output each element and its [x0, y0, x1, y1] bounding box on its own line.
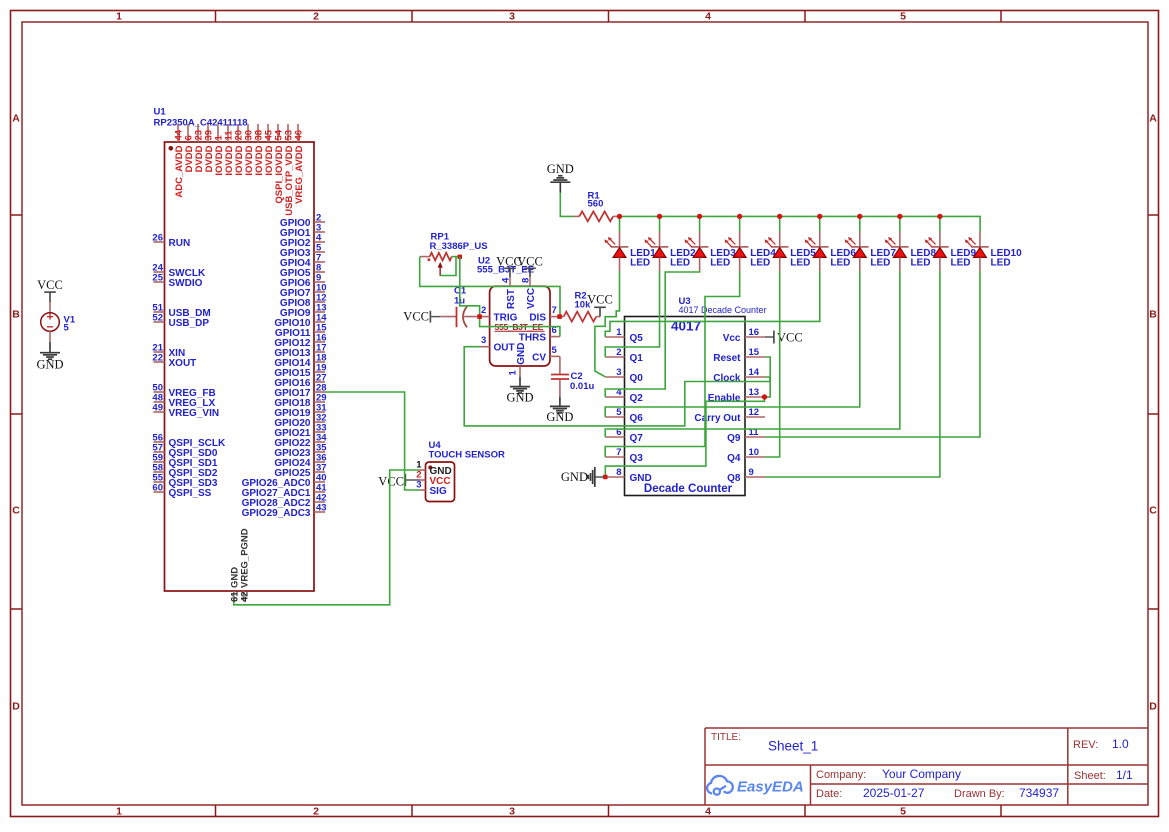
junction (rail LED1) — [617, 214, 622, 219]
svg-text:LED: LED — [830, 257, 850, 268]
svg-text:SIG: SIG — [430, 486, 447, 497]
U1 pin 51 USB_DM — [154, 311, 165, 313]
svg-text:LED: LED — [991, 257, 1011, 268]
junction (rail LED2) — [657, 214, 662, 219]
U3 pin 4 Q2 — [605, 396, 624, 398]
U1 pin 31 GPIO19 — [314, 411, 325, 413]
svg-text:D: D — [12, 701, 20, 713]
wire (LED cathode rail) — [620, 216, 981, 231]
LED LED9 — [939, 216, 941, 231]
U1 pin 18 GPIO14 — [314, 361, 325, 363]
U1 pin 54 QSPI_IOVDD — [277, 124, 279, 142]
svg-text:5: 5 — [900, 806, 906, 818]
svg-text:LED: LED — [870, 257, 890, 268]
svg-text:42: 42 — [239, 591, 250, 602]
svg-text:Q8: Q8 — [727, 473, 741, 484]
svg-text:RP2350A_C42411118: RP2350A_C42411118 — [154, 118, 248, 129]
U1 pin 3 GPIO1 — [314, 231, 325, 233]
U1 pin 28 GPIO17 — [314, 391, 325, 393]
svg-text:43: 43 — [316, 503, 327, 514]
svg-text:TOUCH SENSOR: TOUCH SENSOR — [429, 450, 506, 461]
U1 pin 39 DVDD — [207, 124, 209, 142]
svg-text:VCC: VCC — [777, 331, 803, 345]
svg-text:49: 49 — [152, 403, 163, 414]
U3 pin 14 Clock — [745, 376, 765, 378]
svg-text:2025-01-27: 2025-01-27 — [863, 786, 925, 800]
svg-text:4: 4 — [705, 806, 711, 818]
power flag VCC (U2 VCC) — [529, 268, 531, 277]
U1 pin 41 GPIO27_ADC1 — [314, 491, 325, 493]
U3 pin 15 Reset — [745, 356, 765, 358]
ground GND (V1) — [49, 342, 51, 353]
svg-text:4: 4 — [705, 11, 711, 23]
U1 pin 44 ADC_AVDD — [177, 124, 179, 142]
svg-text:8: 8 — [616, 467, 621, 478]
U1 pin 37 GPIO25 — [314, 471, 325, 473]
svg-text:Clock: Clock — [713, 373, 741, 384]
svg-text:22: 22 — [152, 353, 163, 364]
U2 pin 3 OUT — [480, 346, 489, 348]
svg-text:THRS: THRS — [519, 333, 547, 344]
svg-text:8: 8 — [521, 278, 532, 283]
svg-text:RUN: RUN — [169, 238, 191, 249]
svg-text:60: 60 — [152, 483, 163, 494]
voltage source V1 — [49, 302, 51, 313]
svg-text:U1: U1 — [154, 107, 167, 118]
svg-text:C: C — [1149, 505, 1157, 517]
svg-text:1: 1 — [116, 806, 122, 818]
svg-text:15: 15 — [749, 347, 760, 358]
U2 pin 7 DIS — [550, 316, 560, 318]
ground GND (C2) — [559, 397, 561, 407]
LED LED2 — [659, 216, 661, 231]
svg-text:EasyEDA: EasyEDA — [737, 779, 804, 796]
svg-text:GND: GND — [561, 470, 588, 484]
U1 pin 2 GPIO0 — [314, 221, 325, 223]
ground GND (U3) — [595, 476, 606, 478]
U1 pin 11 IOVDD — [227, 124, 229, 142]
svg-text:GND: GND — [630, 473, 652, 484]
U1 pin 12 GPIO8 — [314, 301, 325, 303]
svg-text:B: B — [12, 309, 20, 321]
svg-text:Q2: Q2 — [630, 393, 644, 404]
svg-text:1: 1 — [116, 11, 122, 23]
junction (TRIG node) — [477, 314, 482, 319]
svg-text:26: 26 — [152, 233, 163, 244]
U3 pin 8 GND — [605, 476, 624, 478]
U1 pin 56 QSPI_SCLK — [154, 441, 165, 443]
svg-text:14: 14 — [749, 367, 760, 378]
U1 pin 34 GPIO22 — [314, 441, 325, 443]
svg-text:LED: LED — [910, 257, 930, 268]
U1 pin 61 GND — [233, 591, 235, 602]
svg-text:16: 16 — [749, 327, 760, 338]
svg-text:3: 3 — [509, 806, 515, 818]
svg-text:GND: GND — [546, 410, 573, 424]
svg-text:Sheet_1: Sheet_1 — [768, 739, 818, 754]
junction (rail LED8) — [897, 214, 902, 219]
svg-text:Q3: Q3 — [630, 453, 644, 464]
U3 pin 13 Enable — [745, 396, 765, 398]
svg-text:LED: LED — [630, 257, 650, 268]
svg-text:Q9: Q9 — [727, 433, 741, 444]
svg-text:VREG_PGND: VREG_PGND — [239, 528, 250, 588]
svg-text:GPIO29_ADC3: GPIO29_ADC3 — [242, 508, 311, 519]
wire (LED7 to Q6) — [605, 271, 860, 417]
svg-text:REV:: REV: — [1073, 739, 1098, 751]
wire (OUT to Clock) — [464, 347, 770, 426]
svg-text:3: 3 — [481, 335, 486, 346]
LED LED10 — [979, 232, 981, 248]
U4 pin 1 GND — [420, 469, 426, 471]
junction (DIS node) — [557, 314, 562, 319]
wire (RP1 to TRIG) — [460, 257, 480, 317]
svg-text:GND: GND — [506, 390, 533, 404]
svg-text:46: 46 — [294, 130, 305, 141]
junction (rail LED6) — [817, 214, 822, 219]
svg-text:VCC: VCC — [526, 288, 537, 309]
svg-text:A: A — [12, 113, 20, 125]
svg-text:7: 7 — [616, 447, 621, 458]
svg-text:Vcc: Vcc — [723, 333, 741, 344]
svg-text:5: 5 — [616, 407, 622, 418]
junction (rail LED5) — [777, 214, 782, 219]
wire (GND to R1) — [560, 193, 573, 217]
svg-text:RST: RST — [506, 289, 517, 309]
U3 pin 9 Q8 — [745, 476, 765, 478]
U1 pin 35 GPIO23 — [314, 451, 325, 453]
wire (LED10 to Q9) — [765, 271, 980, 437]
U1 pin 29 GPIO18 — [314, 401, 325, 403]
svg-text:2: 2 — [313, 11, 319, 23]
svg-text:2: 2 — [313, 806, 319, 818]
svg-text:GND: GND — [36, 358, 63, 372]
U1 pin 40 GPIO26_ADC0 — [314, 481, 325, 483]
svg-text:C: C — [12, 505, 20, 517]
U1 pin 42 GPIO28_ADC2 — [314, 501, 325, 503]
svg-text:VCC: VCC — [403, 310, 429, 324]
U1 pin 6 DVDD — [187, 124, 189, 142]
U3 pin 10 Q4 — [745, 456, 765, 458]
LED LED3 — [699, 216, 701, 231]
wire (LED5 to Q4) — [765, 271, 780, 457]
U1 pin 36 GPIO24 — [314, 461, 325, 463]
svg-text:A: A — [1149, 113, 1157, 125]
svg-text:VCC: VCC — [378, 475, 404, 489]
svg-text:560: 560 — [588, 198, 604, 209]
svg-text:5: 5 — [552, 345, 558, 356]
U1 pin 26 RUN — [154, 241, 165, 243]
svg-text:Q7: Q7 — [630, 433, 644, 444]
U3 pin 3 Q0 — [605, 376, 624, 378]
U3 pin 7 Q3 — [605, 456, 624, 458]
U1 pin 17 GPIO13 — [314, 351, 325, 353]
U1 pin 50 VREG_FB — [154, 391, 165, 393]
svg-text:VREG_VIN: VREG_VIN — [169, 408, 220, 419]
ground GND (U2) — [519, 377, 521, 387]
svg-text:2: 2 — [616, 347, 621, 358]
wire (LED2 to Q1) — [605, 271, 659, 357]
svg-text:1.0: 1.0 — [1112, 737, 1129, 751]
U3 pin 2 Q1 — [605, 356, 624, 358]
svg-text:VCC: VCC — [517, 254, 543, 268]
svg-text:LED: LED — [790, 257, 810, 268]
U1 pin 21 XIN — [154, 351, 165, 353]
svg-text:4: 4 — [501, 277, 512, 283]
LED LED4 — [739, 216, 741, 231]
svg-text:Reset: Reset — [713, 353, 741, 364]
svg-text:CV: CV — [532, 352, 546, 363]
svg-text:9: 9 — [749, 467, 754, 478]
power flag VCC (R2) — [599, 307, 601, 316]
svg-text:VCC: VCC — [37, 278, 63, 292]
svg-text:3: 3 — [616, 367, 621, 378]
U1 pin 48 VREG_LX — [154, 401, 165, 403]
U1 pin 42 VREG_PGND — [243, 591, 245, 602]
wire (TRIG to THRS) — [480, 317, 560, 337]
svg-text:B: B — [1149, 309, 1157, 321]
U1 pin 25 SWDIO — [154, 281, 165, 283]
wire (LED1 to Q0) — [595, 271, 620, 377]
wire (Enable to GND) — [605, 397, 764, 477]
U1 pin 16 GPIO12 — [314, 341, 325, 343]
LED LED8 — [899, 216, 901, 231]
U1 pin 7 GPIO4 — [314, 261, 325, 263]
svg-text:GND: GND — [516, 343, 527, 365]
U3 pin 5 Q6 — [605, 416, 624, 418]
svg-text:Q4: Q4 — [727, 453, 741, 464]
U1 pin 19 GPIO15 — [314, 371, 325, 373]
U4 pin 3 SIG — [420, 489, 426, 491]
U1 pin 46 VREG_AVDD — [297, 124, 299, 142]
svg-text:LED: LED — [951, 257, 971, 268]
U1 pin 8 GPIO5 — [314, 271, 325, 273]
svg-text:Decade Counter: Decade Counter — [644, 483, 733, 495]
U1 pin 10 GPIO7 — [314, 291, 325, 293]
wire (RP1 wiper loop) — [440, 257, 456, 276]
svg-text:LED: LED — [750, 257, 770, 268]
U3 pin 1 Q5 — [605, 336, 624, 338]
svg-text:LED: LED — [710, 257, 730, 268]
U4 pin 2 VCC — [420, 479, 426, 481]
svg-text:D: D — [1149, 701, 1157, 713]
U1 pin 1 IOVDD — [217, 124, 219, 142]
U2 pin 2 TRIG — [480, 316, 490, 318]
U1 pin 32 GPIO20 — [314, 421, 325, 423]
wire (LED8 to Q7) — [605, 271, 900, 437]
svg-text:Company:: Company: — [816, 769, 866, 781]
U1 pin 57 QSPI_SD0 — [154, 451, 165, 453]
U2 pin 6 THRS — [550, 336, 560, 338]
svg-text:OUT: OUT — [494, 343, 515, 354]
svg-text:1/1: 1/1 — [1116, 768, 1133, 782]
power flag VCC (U2 RST) — [509, 268, 511, 277]
U3 pin 11 Q9 — [745, 436, 765, 438]
svg-text:1: 1 — [508, 370, 519, 376]
svg-text:4017 Decade Counter: 4017 Decade Counter — [679, 305, 767, 315]
U2 pin 4 RST — [509, 277, 511, 286]
svg-text:3: 3 — [416, 480, 421, 491]
wire (Reset to Enable) — [765, 357, 771, 397]
svg-text:TITLE:: TITLE: — [711, 732, 741, 743]
title block — [705, 727, 1148, 729]
wire (LED9 to Q8) — [765, 271, 940, 477]
LED LED6 — [819, 216, 821, 231]
U2 pin 1 GND — [519, 366, 521, 377]
U1 pin 9 GPIO6 — [314, 281, 325, 283]
U1 pin 20 IOVDD — [237, 124, 239, 142]
svg-text:13: 13 — [749, 387, 760, 398]
LED LED1 — [619, 216, 621, 231]
svg-text:Your Company: Your Company — [882, 767, 961, 781]
svg-text:USB_DP: USB_DP — [169, 318, 210, 329]
svg-text:Q0: Q0 — [630, 373, 644, 384]
U1 pin 43 GPIO29_ADC3 — [314, 511, 325, 513]
svg-text:QSPI_SS: QSPI_SS — [169, 488, 212, 499]
svg-text:GND: GND — [547, 162, 574, 176]
junction (rail LED3) — [697, 214, 702, 219]
U1 pin 24 SWCLK — [154, 271, 165, 273]
svg-text:Carry Out: Carry Out — [694, 413, 741, 424]
svg-text:DIS: DIS — [529, 313, 546, 324]
U1 pin 27 GPIO16 — [314, 381, 325, 383]
U1 pin 5 GPIO3 — [314, 251, 325, 253]
svg-text:Date:: Date: — [816, 788, 842, 800]
wire (GPIO17 to SIG) — [325, 392, 420, 490]
wire (LED4 to Q3) — [605, 271, 739, 457]
svg-text:1: 1 — [616, 327, 622, 338]
svg-text:Enable: Enable — [708, 393, 741, 404]
svg-text:25: 25 — [152, 273, 163, 284]
U1 pin 52 USB_DP — [154, 321, 165, 323]
U1 pin 58 QSPI_SD2 — [154, 471, 165, 473]
U1 pin 59 QSPI_SD1 — [154, 461, 165, 463]
svg-text:Q6: Q6 — [630, 413, 644, 424]
junction (rail LED9) — [937, 214, 942, 219]
wire (RP1 to DIS) — [420, 257, 560, 317]
junction (rail LED7) — [857, 214, 862, 219]
svg-text:52: 52 — [152, 313, 163, 324]
U1 pin 15 GPIO11 — [314, 331, 325, 333]
wire (LED3 to Q2) — [605, 271, 699, 397]
svg-text:Q5: Q5 — [630, 333, 644, 344]
U1 pin 4 GPIO2 — [314, 241, 325, 243]
junction (RP1 pin3) — [458, 255, 462, 259]
U3 pin 12 Carry Out — [745, 416, 765, 418]
U1 pin 49 VREG_VIN — [154, 411, 165, 413]
svg-text:LED: LED — [670, 257, 690, 268]
junction (Enable node) — [762, 394, 767, 399]
svg-text:VCC: VCC — [587, 293, 613, 307]
svg-text:Q1: Q1 — [630, 353, 644, 364]
svg-text:VREG_AVDD: VREG_AVDD — [294, 145, 305, 204]
U2 pin 5 CV — [550, 355, 560, 357]
LED LED7 — [859, 216, 861, 231]
svg-text:7: 7 — [552, 305, 557, 316]
junction (rail LED4) — [737, 214, 742, 219]
svg-text:12: 12 — [749, 407, 760, 418]
svg-text:0.01u: 0.01u — [570, 381, 594, 392]
U1 pin 22 XOUT — [154, 361, 165, 363]
U3 pin 6 Q7 — [605, 436, 624, 438]
svg-text:5: 5 — [900, 11, 906, 23]
logo EasyEDA — [707, 776, 733, 795]
wire (U1 GND to U4 GND) — [234, 470, 420, 605]
svg-text:Drawn By:: Drawn By: — [954, 788, 1005, 800]
svg-text:5: 5 — [64, 323, 70, 334]
U1 pin 60 QSPI_SS — [154, 491, 165, 493]
U1 pin 30 IOVDD — [247, 124, 249, 142]
U1 pin 45 IOVDD — [267, 124, 269, 142]
U2 pin 8 VCC — [529, 277, 531, 286]
svg-text:10: 10 — [749, 447, 760, 458]
power flag VCC (U3) — [765, 336, 774, 338]
wire (LED6 to Q5) — [605, 271, 820, 337]
svg-text:TRIG: TRIG — [494, 313, 518, 324]
svg-text:SWDIO: SWDIO — [169, 278, 203, 289]
U1 pin 53 USB_OTP_VDD — [287, 124, 289, 142]
U1 pin 13 GPIO9 — [314, 311, 325, 313]
U1 pin 55 QSPI_SD3 — [154, 481, 165, 483]
svg-text:3: 3 — [509, 11, 515, 23]
U3 pin 16 Vcc — [745, 336, 765, 338]
U1 pin 23 DVDD — [197, 124, 199, 142]
svg-text:XOUT: XOUT — [169, 358, 197, 369]
junction (U3 GND node) — [603, 475, 607, 479]
LED LED5 — [779, 216, 781, 231]
U1 pin 33 GPIO21 — [314, 431, 325, 433]
svg-text:734937: 734937 — [1019, 786, 1059, 800]
U1 pin 14 GPIO10 — [314, 321, 325, 323]
U1 pin 38 IOVDD — [257, 124, 259, 142]
svg-text:Sheet:: Sheet: — [1074, 770, 1106, 782]
svg-text:R_3386P_US: R_3386P_US — [430, 241, 488, 252]
